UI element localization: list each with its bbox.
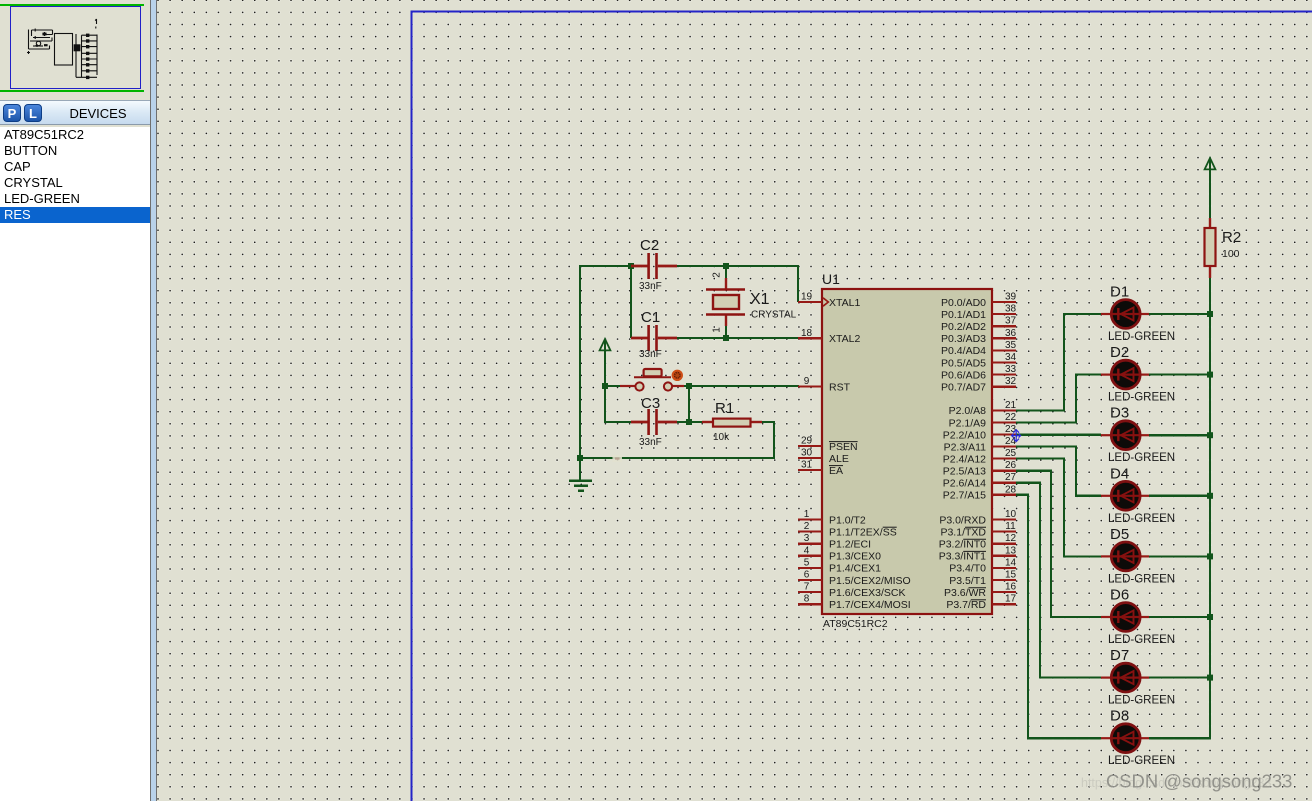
svg-text:5: 5 [804,557,810,568]
capacitor C3 right plate [655,409,658,435]
svg-text:2: 2 [804,521,810,532]
svg-text:1: 1 [804,509,810,520]
svg-text:D8: D8 [1110,708,1129,725]
LED D8 [1101,724,1149,753]
left object selector panel [0,0,150,801]
junction LED D7 on bus [1207,675,1213,681]
svg-text:P0.6/AD6: P0.6/AD6 [941,369,986,381]
svg-text:D7: D7 [1110,647,1129,664]
svg-text:P2.3/A11: P2.3/A11 [944,441,987,453]
junction LED D2 on bus [1207,372,1213,378]
svg-text:X1: X1 [750,291,770,308]
U1 XTAL1 clock input marker [823,298,828,306]
U1 pin 9 (RST) [798,376,851,393]
svg-text:EA: EA [829,465,843,477]
U1 pin 10 (P3.0/RXD) [939,509,1016,526]
U1 pin 8 (P1.7/CEX4/MOSI) [798,594,911,611]
svg-text:36: 36 [1005,328,1017,339]
U1 pin 30 (ALE) [798,448,849,465]
svg-text:25: 25 [1005,448,1017,459]
junction C3 right / R1 left [686,419,692,425]
svg-text:7: 7 [804,582,810,593]
capacitor C2 right plate [655,253,658,279]
capacitor C1 left plate [647,325,650,351]
svg-text:P2.1/A9: P2.1/A9 [949,417,987,429]
U1 pin 16 (P3.6/WR) [944,582,1017,599]
svg-text:R2: R2 [1222,229,1241,246]
svg-text:P0.4/AD4: P0.4/AD4 [941,345,986,357]
U1 pin 14 (P3.4/T0) [949,557,1016,574]
svg-text:P2.7/A15: P2.7/A15 [943,490,986,502]
junction at crystal top stub [723,263,729,269]
wire LED D4 right lead to vertical bus [1149,495,1211,497]
U1 pin 39 (P0.0/AD0) [941,292,1016,309]
svg-text:P1.6/CEX3/SCK: P1.6/CEX3/SCK [829,587,905,599]
svg-text:35: 35 [1005,340,1017,351]
svg-text:37: 37 [1005,316,1017,327]
svg-text:P3.0/RXD: P3.0/RXD [939,514,986,526]
svg-text:1: 1 [712,327,723,333]
svg-text:C2: C2 [640,237,659,254]
U1 pin 12 (P3.2/INT0) [939,533,1017,550]
svg-text:32: 32 [1005,376,1017,387]
svg-text:9: 9 [804,376,810,387]
LED D2 [1101,360,1149,389]
panel/canvas divider [150,0,157,801]
svg-text:P1.5/CEX2/MISO: P1.5/CEX2/MISO [829,575,911,587]
svg-text:24: 24 [1005,436,1017,447]
svg-text:P3.4/T0: P3.4/T0 [949,563,986,575]
button right stub lead [672,385,684,387]
svg-text:14: 14 [1005,557,1017,568]
svg-text:19: 19 [801,292,813,303]
U1 pin 25 (P2.4/A12) [943,448,1017,465]
crystal X1 bottom electrode [706,313,745,315]
U1 pin 31 (EA) [798,460,843,477]
resistor R1 body [713,419,751,427]
svg-text:P0.2/AD2: P0.2/AD2 [941,321,986,333]
junction LED D6 on bus [1207,614,1213,620]
svg-text:3: 3 [804,533,810,544]
mouse cursor (blue move cross) [1012,430,1021,442]
svg-text:D4: D4 [1110,465,1129,482]
svg-text:P3.5/T1: P3.5/T1 [949,575,986,587]
svg-text:P0.1/AD1: P0.1/AD1 [941,309,986,321]
svg-text:D5: D5 [1110,526,1129,543]
svg-text:6: 6 [804,570,810,581]
wire P2.0 pin 21 to LED D1 [1016,314,1101,410]
svg-text:P3.6/WR: P3.6/WR [944,587,986,599]
wire P2.6 pin 27 to LED D7 [1016,483,1101,678]
svg-text:28: 28 [1005,484,1017,495]
button left contact circle [635,382,643,390]
button actuator base bar [634,376,671,378]
wire button right pin to RST pin 9 [683,385,799,387]
overview mini pin blob [74,44,81,51]
wire C3 right lead to junction [677,421,689,423]
svg-text:CRYSTAL: CRYSTAL [751,310,797,321]
U1 pin 6 (P1.5/CEX2/MISO) [798,570,911,587]
devices header [0,100,150,125]
svg-text:34: 34 [1005,352,1017,363]
svg-text:P0.0/AD0: P0.0/AD0 [941,297,986,309]
wire R2 bottom to LED bus end [1209,277,1211,738]
U1 pin 18 (XTAL2) [798,328,860,345]
resistor R2 top lead [1209,218,1211,228]
button left stub lead [620,385,635,387]
svg-text:33nF: 33nF [639,281,662,292]
svg-text:16: 16 [1005,582,1017,593]
svg-text:P2.6/A14: P2.6/A14 [943,478,986,490]
power symbol (up arrow) near button [600,339,611,350]
light marker patch on ground rail [613,455,623,462]
wire LED D3 right lead to vertical bus [1149,434,1211,436]
svg-text:17: 17 [1005,594,1017,605]
svg-text:LED-GREEN: LED-GREEN [1108,695,1175,707]
svg-text:P0.5/AD5: P0.5/AD5 [941,357,986,369]
wire P2.1 pin 22 to LED D2 [1016,375,1101,423]
U1 pin 34 (P0.5/AD5) [941,352,1016,369]
wire ground stub [579,458,581,480]
U1 pin 29 (PSEN) [798,436,858,453]
svg-text:22: 22 [1005,412,1017,423]
resistor R2 body [1205,228,1216,266]
U1 pin 15 (P3.5/T1) [949,570,1016,587]
LED D7 [1101,663,1149,692]
capacitor C2 right lead [658,265,677,268]
U1 pin 33 (P0.6/AD6) [941,364,1016,381]
svg-text:P3.7/RD: P3.7/RD [946,599,986,611]
U1 pin 36 (P0.3/AD3) [941,328,1016,345]
wire LED D7 right lead to vertical bus [1149,676,1211,678]
sheet border (blue page outline) [412,12,1312,801]
overview mini LED dots [86,34,89,37]
U1 pin 26 (P2.5/A13) [943,460,1017,477]
svg-text:11: 11 [1005,521,1016,532]
U1 pin 27 (P2.6/A14) [943,472,1017,489]
crystal X1 bottom pin lead [725,314,727,326]
svg-text:13: 13 [1005,545,1017,556]
wire crystal top stub [725,266,727,279]
wire button-right junction down to R1 junction [688,386,690,422]
svg-text:RST: RST [829,381,851,393]
capacitor C1 left lead [631,337,648,340]
svg-text:P2.2/A10: P2.2/A10 [943,429,986,441]
wire LED D6 right lead to vertical bus [1149,616,1211,618]
overview window [0,0,150,100]
U1 pin 2 (P1.1/T2EX/SS) [798,521,897,538]
svg-text:D1: D1 [1110,284,1129,301]
svg-text:LED-GREEN: LED-GREEN [1108,513,1175,525]
svg-text:P3.2/INT0: P3.2/INT0 [939,539,986,551]
svg-text:XTAL2: XTAL2 [829,333,860,345]
wire left vertical drop (C2 row to ground rail) [579,266,581,458]
svg-text:LED-GREEN: LED-GREEN [1108,331,1175,343]
wire P2.3 pin 24 to LED D4 [1016,447,1101,496]
svg-text:D3: D3 [1110,405,1129,422]
junction at crystal bottom stub [723,335,729,341]
junction LED D5 on bus [1207,553,1213,559]
wire LED D5 right lead to vertical bus [1149,555,1211,557]
U1 pin 22 (P2.1/A9) [949,412,1017,429]
U1 pin 11 (P3.1/TXD) [940,521,1016,538]
wire RST junction to button left pin [605,385,621,387]
crystal X1 top electrode [706,288,745,290]
junction ground rail [577,455,583,461]
svg-text:P0.3/AD3: P0.3/AD3 [941,333,986,345]
svg-text:10k: 10k [713,432,730,443]
resistor R2 bottom lead [1209,266,1211,278]
svg-text:27: 27 [1005,472,1017,483]
capacitor C3 right lead [658,421,677,424]
svg-text:LED-GREEN: LED-GREEN [1108,634,1175,646]
svg-text:P1.3/CEX0: P1.3/CEX0 [829,551,881,563]
U1 pin 35 (P0.4/AD4) [941,340,1016,357]
svg-text:P2.4/A12: P2.4/A12 [943,453,986,465]
overview mini led ladder [76,34,97,77]
junction LED D1 on bus [1207,311,1213,317]
button actuator cap [644,369,662,376]
wire power symbol stem down to R2 top [1209,160,1211,219]
svg-text:P1.2/ECI: P1.2/ECI [829,539,871,551]
capacitor C3 left lead [631,421,648,424]
resistor R1 left lead [702,421,713,423]
svg-text:D6: D6 [1110,587,1129,604]
U1 pin 21 (P2.0/A8) [949,400,1017,417]
ground symbol [569,481,592,491]
wire LED D8 right lead to vertical bus [1149,737,1211,739]
junction at C2 left / C1 branch [628,263,634,269]
svg-text:23: 23 [1005,424,1017,435]
LED D6 [1101,603,1149,632]
svg-text:LED-GREEN: LED-GREEN [1108,392,1175,404]
svg-text:C1: C1 [641,309,660,326]
wire LED D2 right lead to vertical bus [1149,374,1211,376]
svg-text:P3.1/TXD: P3.1/TXD [940,526,986,538]
U1 pin 28 (P2.7/A15) [943,484,1017,501]
svg-text:29: 29 [801,436,813,447]
svg-text:2: 2 [712,272,723,278]
LED D4 [1101,481,1149,510]
junction LED D3 on bus [1207,432,1213,438]
capacitor C2 left plate [647,253,650,279]
button right contact circle [664,382,672,390]
crystal X1 body [713,295,739,309]
svg-text:100: 100 [1222,248,1240,260]
U1 pin 4 (P1.3/CEX0) [798,545,881,562]
U1 pin 5 (P1.4/CEX1) [798,557,881,574]
crystal X1 top pin lead [725,278,727,290]
svg-text:8: 8 [804,594,810,605]
wire P2.4 pin 25 to LED D5 [1016,459,1101,557]
svg-text:C3: C3 [641,395,660,412]
wire P2.2 pin 23 to LED D3 [1016,434,1101,436]
devices list [0,127,150,801]
overview mini chip U1 [55,34,73,66]
svg-text:P3.3/INT1: P3.3/INT1 [939,551,986,563]
svg-text:R1: R1 [715,400,734,417]
svg-text:LED-GREEN: LED-GREEN [1108,755,1175,767]
svg-text:15: 15 [1005,570,1017,581]
svg-text:XTAL1: XTAL1 [829,297,860,309]
power symbol (up arrow) above R2 [1205,158,1216,169]
svg-text:4: 4 [804,545,810,556]
svg-text:P2.0/A8: P2.0/A8 [949,405,987,417]
svg-text:AT89C51RC2: AT89C51RC2 [823,618,888,630]
LED D5 [1101,542,1149,571]
svg-text:U1: U1 [822,271,840,287]
wire C2 right to corner above XTAL1 [677,265,798,267]
U1 pin 17 (P3.7/RD) [946,594,1016,611]
svg-text:LED-GREEN: LED-GREEN [1108,573,1175,585]
junction button right / RST [686,383,692,389]
svg-text:26: 26 [1005,460,1017,471]
svg-text:P1.1/T2EX/SS: P1.1/T2EX/SS [829,526,897,538]
svg-text:12: 12 [1005,533,1017,544]
svg-text:PSEN: PSEN [829,441,858,453]
capacitor C1 right plate [655,325,658,351]
U1 pin 13 (P3.3/INT1) [939,545,1017,562]
svg-text:33: 33 [1005,364,1017,375]
wire C2-left to branch junction [579,265,631,267]
svg-text:P1.7/CEX4/MOSI: P1.7/CEX4/MOSI [829,599,911,611]
U1 pin 19 (XTAL1) [798,292,860,309]
svg-text:33nF: 33nF [639,349,662,360]
junction LED D4 on bus [1207,493,1213,499]
wire P2.7 pin 28 to LED D8 [1016,495,1101,738]
button interactive red marker [673,371,682,380]
U1 pin 32 (P0.7/AD7) [941,376,1016,393]
svg-text:30: 30 [801,448,813,459]
U1 pin 38 (P0.1/AD1) [941,304,1016,321]
svg-text:P2.5/A13: P2.5/A13 [943,465,986,477]
svg-text:P0.7/AD7: P0.7/AD7 [941,382,986,394]
svg-text:38: 38 [1005,304,1017,315]
svg-text:21: 21 [1005,400,1017,411]
wire R1 right lead to ground rail [579,422,774,458]
U1 pin 23 (P2.2/A10) [943,424,1017,441]
svg-text:33nF: 33nF [639,437,662,448]
svg-text:D2: D2 [1110,344,1129,361]
svg-text:P1.0/T2: P1.0/T2 [829,514,866,526]
wire P2.5 pin 26 to LED D6 [1016,471,1101,617]
wire C1 right to XTAL2 pin 18 [677,337,799,339]
U1 pin 24 (P2.3/A11) [944,436,1017,453]
overview mini LED bus [96,35,98,76]
U1 pin 3 (P1.2/ECI) [798,533,871,550]
U1 pin 7 (P1.6/CEX3/SCK) [798,582,905,599]
wire power symbol stem down to C3 corner [604,341,606,422]
wire LED D1 right lead to vertical bus [1149,313,1211,315]
wire branch junction down to C1 left [630,266,632,338]
U1 pin 37 (P0.2/AD2) [941,316,1016,333]
svg-text:P1.4/CEX1: P1.4/CEX1 [829,563,881,575]
svg-text:18: 18 [801,328,813,339]
U1 pin 1 (P1.0/T2) [798,509,866,526]
wire crystal bottom stub [725,325,727,338]
LED D1 [1101,300,1149,329]
svg-text:LED-GREEN: LED-GREEN [1108,452,1175,464]
wire corner down to XTAL1 pin 19 [797,265,799,302]
svg-text:10: 10 [1005,509,1017,520]
capacitor C2 left lead [631,265,648,268]
LED D3 [1101,421,1149,450]
wire corner to C3 left lead [604,421,631,423]
svg-text:31: 31 [801,460,813,471]
capacitor C3 left plate [647,409,650,435]
svg-text:CSDN @songsong233: CSDN @songsong233 [1106,771,1292,792]
overview mini power tick [95,19,96,29]
wire junction to R1 left lead [689,421,702,423]
svg-text:ALE: ALE [829,453,849,465]
microcontroller U1 AT89C51RC2 body [822,289,992,614]
junction power-stem / button left [602,383,608,389]
svg-text:39: 39 [1005,292,1017,303]
resistor R1 right lead [750,421,762,423]
overview mini reset/crystal cluster [27,29,53,55]
capacitor C1 right lead [658,337,677,340]
